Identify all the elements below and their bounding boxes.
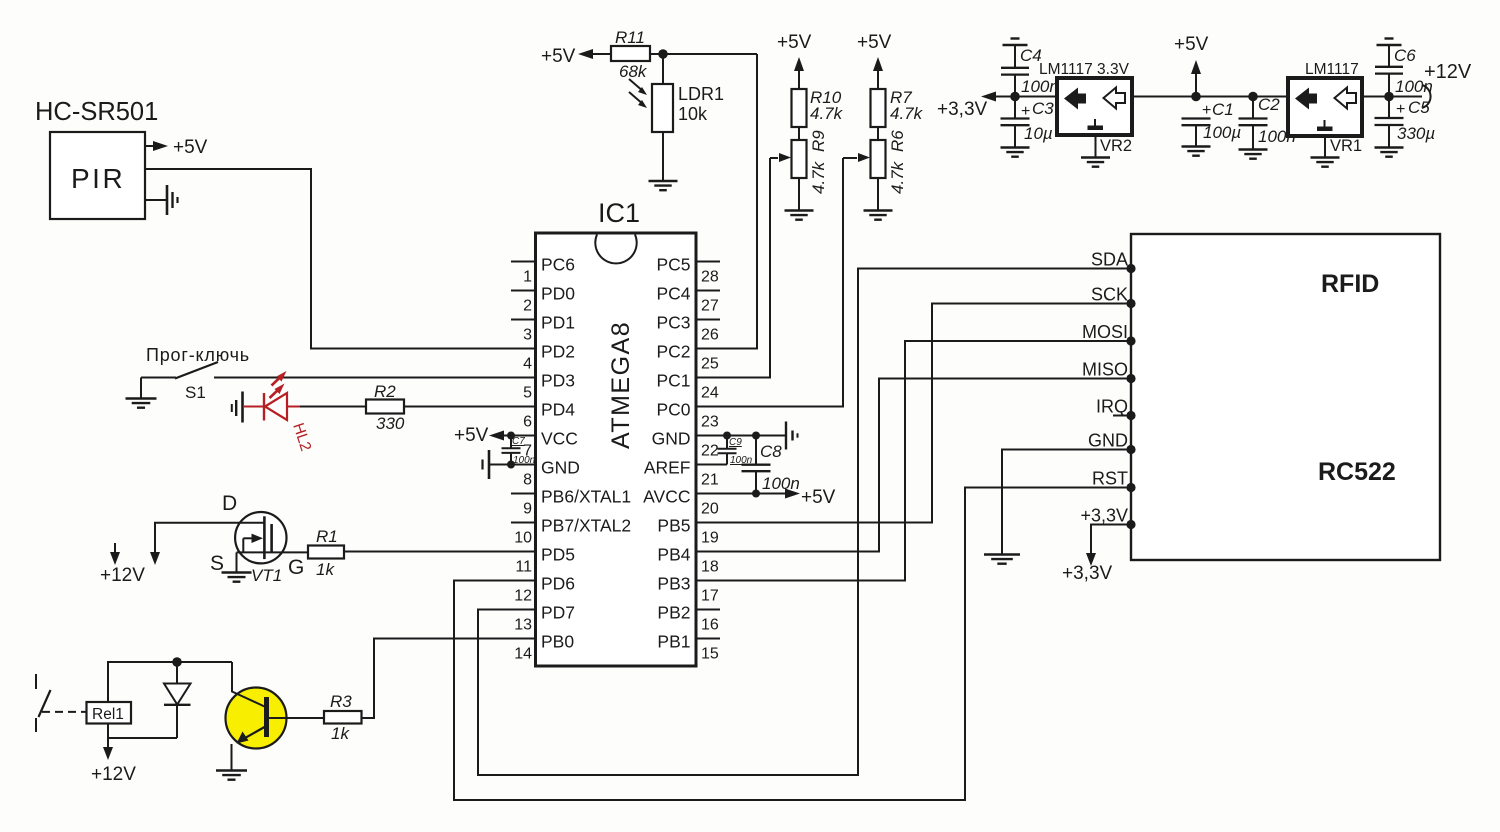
C9 label — [729, 437, 742, 448]
svg-text:C1: C1 — [1212, 100, 1234, 119]
svg-text:C7: C7 — [512, 436, 525, 447]
svg-text:LDR1: LDR1 — [678, 84, 724, 104]
pin 8 number — [523, 472, 532, 489]
wire PB4 to MISO — [696, 379, 1127, 552]
wire R6 to ground — [877, 178, 879, 210]
svg-text:+5V: +5V — [173, 137, 208, 158]
VR2 gnd tab — [1088, 119, 1104, 130]
capacitor C3 — [1001, 97, 1030, 148]
svg-text:19: 19 — [701, 530, 719, 547]
capacitor C2 — [1239, 97, 1268, 150]
IRQ stub — [1113, 415, 1127, 417]
R2 label — [374, 382, 396, 401]
wire VR2 to ground — [1095, 135, 1097, 157]
svg-text:2: 2 — [523, 298, 532, 315]
resistor R3 — [324, 711, 362, 724]
svg-text:24: 24 — [701, 385, 719, 402]
pin 22 name GND — [652, 429, 691, 449]
svg-text:10µ: 10µ — [1024, 124, 1053, 143]
+3,3V label — [937, 99, 988, 120]
R1 label — [316, 527, 338, 546]
svg-text:AVCC: AVCC — [643, 487, 690, 507]
+5V arrow C1 — [1191, 60, 1201, 97]
pin 12 name PD6 — [541, 574, 575, 594]
svg-text:22: 22 — [701, 443, 719, 460]
capacitor C5 — [1375, 97, 1404, 148]
capacitor C9 — [718, 436, 737, 465]
op IC1 body — [536, 233, 697, 666]
wire source to ground — [236, 552, 238, 572]
pin 14 name PB0 — [541, 632, 574, 652]
10k label — [678, 104, 708, 124]
svg-text:PB3: PB3 — [657, 574, 690, 594]
pin 18 number — [701, 559, 719, 576]
R9 wiper arrow — [770, 153, 791, 162]
C1 plus sign — [1202, 102, 1211, 119]
RFID pin MISO label — [1082, 360, 1128, 380]
VR1 solid arrow — [1295, 88, 1317, 110]
LM1117 3.3V label — [1039, 61, 1130, 78]
+5V arrow R10 — [794, 57, 804, 89]
svg-text:PC6: PC6 — [541, 255, 575, 275]
capacitor C7 — [502, 436, 521, 465]
ground above C6 — [1377, 39, 1402, 46]
svg-text:ATMEGA8: ATMEGA8 — [607, 321, 635, 449]
ground above C4 — [1003, 39, 1028, 46]
pin 7 name VCC — [541, 429, 578, 449]
wire pin22 GND net — [696, 435, 785, 437]
trimmer R6 — [871, 140, 886, 178]
VR1 gnd tab — [1317, 120, 1333, 131]
pin 26 stub — [696, 319, 720, 321]
svg-text:R1: R1 — [316, 527, 338, 546]
HC-SR501 label — [35, 98, 158, 126]
pin 20 number — [701, 501, 719, 518]
capacitor C8 — [742, 436, 771, 494]
wire PD7 to SDA — [478, 269, 1127, 776]
VR2 solid arrow — [1064, 88, 1086, 110]
pin 10 name PB7/XTAL2 — [541, 516, 631, 536]
C3 label — [1032, 99, 1054, 118]
RFID pin GND label — [1088, 431, 1128, 451]
svg-text:VR1: VR1 — [1330, 137, 1362, 155]
+12V input connector — [1422, 85, 1431, 108]
node C6/C5 junction — [1384, 92, 1394, 102]
node C4/C3 junction — [1010, 92, 1020, 102]
svg-text:+3,3V: +3,3V — [1080, 506, 1128, 526]
ground RFID — [984, 555, 1020, 564]
RFID pin IRQ label — [1096, 397, 1128, 417]
svg-text:23: 23 — [701, 414, 719, 431]
pin 16 name PB2 — [657, 603, 690, 623]
ground C3 — [1001, 148, 1030, 157]
pin 25 stub — [696, 348, 720, 350]
pin 28 name PC5 — [656, 255, 690, 275]
pin 16 number — [701, 617, 719, 634]
svg-text:PC4: PC4 — [656, 284, 690, 304]
wire pin8 to ground — [490, 464, 511, 466]
svg-text:+3,3V: +3,3V — [1062, 563, 1113, 584]
wire R10-R9 — [798, 127, 800, 140]
svg-text:PC5: PC5 — [656, 255, 690, 275]
+12V arrow standalone — [110, 543, 120, 565]
svg-text:11: 11 — [515, 559, 532, 576]
svg-text:13: 13 — [514, 617, 532, 634]
pin 14 number — [514, 646, 532, 663]
68k label — [619, 62, 648, 81]
RFID pin GND dot — [1126, 445, 1135, 454]
R9 label rotated — [809, 130, 828, 152]
RFID pin SCK label — [1091, 285, 1128, 305]
pin 12 number — [514, 588, 532, 605]
svg-text:PC0: PC0 — [656, 400, 690, 420]
pin 25 name PC2 — [656, 342, 690, 362]
svg-text:PB6/XTAL1: PB6/XTAL1 — [541, 487, 631, 507]
svg-text:IRQ: IRQ — [1096, 397, 1128, 417]
pin 4 name PD2 — [541, 342, 575, 362]
svg-text:S1: S1 — [185, 383, 206, 402]
node VCC junction — [507, 432, 515, 440]
pin 23 name PC0 — [656, 400, 690, 420]
relay contact — [36, 674, 51, 732]
pin 18 name PB4 — [657, 545, 690, 565]
svg-text:C3: C3 — [1032, 99, 1054, 118]
svg-text:3: 3 — [523, 327, 532, 344]
svg-text:PD4: PD4 — [541, 400, 575, 420]
transistor Q1 body — [226, 688, 287, 749]
svg-text:4.7k: 4.7k — [888, 160, 907, 194]
pin 11 name PD5 — [541, 545, 575, 565]
pin 6 name PD4 — [541, 400, 575, 420]
D label — [222, 492, 237, 515]
RFID pin RST label — [1092, 469, 1128, 489]
RFID pin MOSI label — [1082, 322, 1128, 342]
svg-text:VT1: VT1 — [251, 566, 282, 585]
PIR text — [71, 163, 125, 194]
svg-text:MOSI: MOSI — [1082, 322, 1128, 342]
HL2 flash arrows — [270, 371, 287, 398]
svg-text:+5V: +5V — [777, 32, 812, 53]
svg-text:PD0: PD0 — [541, 284, 575, 304]
R3 label — [330, 692, 352, 711]
regulator VR2 box — [1057, 78, 1132, 135]
wire R2 to PD4 — [404, 406, 535, 408]
S1 label — [185, 383, 206, 402]
RFID pin MOSI dot — [1126, 336, 1135, 345]
ground VT1 — [222, 573, 252, 582]
pin 2 stub — [511, 290, 536, 292]
svg-text:10: 10 — [514, 530, 532, 547]
svg-text:+5V: +5V — [454, 425, 489, 446]
R6 label rotated — [888, 130, 907, 152]
svg-text:PD7: PD7 — [541, 603, 575, 623]
resistor R11 — [611, 46, 650, 61]
pin 18 stub — [696, 551, 720, 553]
svg-text:PB4: PB4 — [657, 545, 690, 565]
svg-text:18: 18 — [701, 559, 719, 576]
svg-text:AREF: AREF — [644, 458, 691, 478]
pin 26 number — [701, 327, 719, 344]
wire RFID +3,3V — [1086, 525, 1127, 567]
relay Rel1 coil box — [87, 702, 132, 724]
RFID pin +3,3V dot — [1126, 520, 1135, 529]
pin 17 stub — [696, 580, 720, 582]
svg-text:1k: 1k — [316, 560, 335, 579]
pin 16 stub — [696, 609, 720, 611]
capacitor C4 — [1001, 46, 1029, 97]
wire PB3 to MOSI — [696, 341, 1127, 581]
pin 3 stub — [511, 319, 536, 321]
node C1 junction — [1191, 92, 1201, 102]
ground HL2 (rotated left) — [232, 392, 243, 423]
pin 13 name PD7 — [541, 603, 575, 623]
pin 20 name AVCC — [643, 487, 690, 507]
svg-text:PD1: PD1 — [541, 313, 575, 333]
+3,3V label below arrow — [1062, 563, 1113, 584]
wire R9 to ground — [798, 178, 800, 210]
svg-text:+3,3V: +3,3V — [937, 99, 988, 120]
svg-text:28: 28 — [701, 269, 719, 286]
pin 24 name PC1 — [656, 371, 690, 391]
pin 4 number — [523, 356, 532, 373]
node GND pin8 junction — [507, 461, 515, 469]
C1 label — [1212, 100, 1234, 119]
wire junction to LDR — [662, 54, 664, 84]
pin 11 number — [515, 559, 532, 576]
wire LED to R2 — [300, 406, 366, 408]
wire RFID GND — [1002, 450, 1127, 555]
+12V label VT1 — [100, 565, 145, 586]
Q1 base bar — [264, 697, 269, 737]
wire PIR out to PD2 — [145, 169, 535, 349]
svg-text:+12V: +12V — [1424, 61, 1472, 83]
C8 value 100n — [762, 474, 800, 493]
svg-text:9: 9 — [523, 501, 532, 518]
LM1117 label — [1305, 61, 1359, 78]
pin 23 number — [701, 414, 719, 431]
ground PIR (rotated right) — [145, 185, 178, 215]
pin 19 name PB5 — [657, 516, 690, 536]
RFID pin IRQ dot — [1126, 411, 1135, 420]
svg-text:PC2: PC2 — [656, 342, 690, 362]
+5V label top — [541, 46, 576, 67]
svg-text:5: 5 — [523, 385, 532, 402]
ground VR2 — [1081, 158, 1110, 167]
+5V label VCC — [454, 425, 489, 446]
diode VD — [164, 662, 191, 738]
pin 5 name PD3 — [541, 371, 575, 391]
wire LDR net to PC2 — [696, 54, 757, 349]
svg-text:PB1: PB1 — [657, 632, 690, 652]
pin 9 number — [523, 501, 532, 518]
svg-text:VCC: VCC — [541, 429, 578, 449]
svg-text:PD5: PD5 — [541, 545, 575, 565]
Rel1 label — [92, 706, 124, 723]
svg-text:68k: 68k — [619, 62, 648, 81]
wire LDR to ground — [662, 132, 664, 181]
dashed link — [42, 711, 86, 713]
wire AREF stub — [696, 464, 727, 466]
svg-text:SCK: SCK — [1091, 285, 1128, 305]
ATMEGA8 label rotated — [607, 321, 635, 449]
resistor R10 — [792, 89, 807, 127]
node C8 junction — [752, 432, 760, 440]
pin 5 number — [523, 385, 532, 402]
ground pin8 (rotated left) — [483, 450, 490, 479]
svg-text:+5V: +5V — [541, 46, 576, 67]
pin 22 number — [701, 443, 719, 460]
ground pin22 (rotated right) — [786, 422, 798, 450]
node AVCC junction — [752, 490, 760, 498]
op RC522 module box — [1131, 234, 1440, 560]
pin 10 stub — [511, 522, 536, 524]
photoresistor LDR1 — [652, 84, 673, 132]
svg-text:PB5: PB5 — [657, 516, 690, 536]
wire PB5 to SCK — [696, 304, 1127, 523]
C5 value 330u — [1397, 124, 1435, 143]
pin 26 name PC3 — [656, 313, 690, 333]
svg-text:R3: R3 — [330, 692, 352, 711]
pin 21 number — [701, 472, 719, 489]
svg-text:21: 21 — [701, 472, 719, 489]
pin 12 stub — [511, 580, 536, 582]
R2 value 330 — [376, 414, 405, 433]
pin 23 stub — [696, 406, 720, 408]
+5V arrow AVCC — [785, 489, 800, 499]
+5V label R10 — [777, 32, 812, 53]
svg-text:+5V: +5V — [1174, 34, 1209, 55]
pin 19 number — [701, 530, 719, 547]
pin 7 stub — [511, 435, 536, 437]
svg-text:4: 4 — [523, 356, 532, 373]
RFID pin RST dot — [1126, 483, 1135, 492]
svg-text:Прог-ключь: Прог-ключь — [146, 345, 250, 365]
C8 label — [760, 442, 782, 461]
G label — [288, 556, 304, 579]
pin 27 stub — [696, 290, 720, 292]
trimmer R9 — [792, 140, 807, 178]
pin 28 number — [701, 269, 719, 286]
resistor R2 — [366, 400, 404, 414]
svg-text:4.7k: 4.7k — [809, 160, 828, 194]
svg-text:C5: C5 — [1408, 98, 1430, 117]
wire R1 to PD5 — [344, 551, 535, 553]
pin 15 number — [701, 646, 719, 663]
svg-text:15: 15 — [701, 646, 719, 663]
svg-text:D: D — [222, 492, 237, 515]
C7 label — [512, 436, 525, 447]
svg-text:R6: R6 — [888, 130, 907, 152]
svg-text:GND: GND — [541, 458, 580, 478]
wire VR1 to ground — [1324, 136, 1326, 157]
Q1 emitter — [237, 727, 265, 744]
C4 value 100n — [1021, 77, 1059, 96]
svg-text:G: G — [288, 556, 304, 579]
svg-text:6: 6 — [523, 414, 532, 431]
R1 value 1k — [316, 560, 335, 579]
+12V arrow relay — [103, 738, 113, 760]
RFID pin SDA label — [1091, 250, 1128, 270]
svg-text:C6: C6 — [1394, 46, 1416, 65]
VR1 outline arrow — [1335, 88, 1357, 109]
switch S1 — [141, 362, 535, 379]
svg-text:IC1: IC1 — [598, 198, 640, 228]
pin 7 number — [523, 443, 532, 460]
R3 value 1k — [331, 724, 350, 743]
pin 17 number — [701, 588, 719, 605]
C2 value 100n — [1258, 127, 1296, 146]
pin 25 number — [701, 356, 719, 373]
wire coil bottom — [108, 724, 177, 739]
RFID pin +3,3V label — [1080, 506, 1128, 526]
svg-text:+5V: +5V — [857, 32, 892, 53]
node coil/diode junction — [172, 657, 182, 667]
svg-text:PD6: PD6 — [541, 574, 575, 594]
Q1 collector — [232, 662, 265, 707]
C5 plus sign — [1396, 101, 1405, 118]
svg-text:R9: R9 — [809, 130, 828, 152]
PIR module box — [50, 132, 145, 219]
svg-text:HC-SR501: HC-SR501 — [35, 98, 158, 126]
LDR1 label — [678, 84, 724, 104]
svg-text:330µ: 330µ — [1397, 124, 1435, 143]
VT1 source arrow — [243, 534, 263, 553]
+3,3V output arrow — [981, 92, 1057, 102]
+5V arrow VCC — [489, 431, 535, 441]
VR1 label — [1330, 137, 1362, 155]
R10 label — [810, 88, 842, 107]
ground C1 — [1182, 147, 1211, 156]
pin 1 name PC6 — [541, 255, 575, 275]
wire R9 wiper to PC1 — [696, 158, 770, 378]
svg-text:+12V: +12V — [91, 764, 136, 785]
svg-text:330: 330 — [376, 414, 405, 433]
svg-text:C2: C2 — [1258, 95, 1280, 114]
wire source-gate row — [237, 551, 309, 553]
svg-text:GND: GND — [652, 429, 691, 449]
svg-text:VR2: VR2 — [1100, 137, 1132, 155]
pin 13 number — [514, 617, 532, 634]
RFID pin SCK dot — [1126, 299, 1135, 308]
pin 14 stub — [511, 638, 536, 640]
svg-text:R11: R11 — [615, 28, 645, 47]
svg-text:+: + — [1021, 103, 1030, 120]
C6 value 100n — [1395, 77, 1433, 96]
pin 20 stub — [696, 493, 720, 495]
svg-text:R2: R2 — [374, 382, 396, 401]
ground C5 — [1375, 148, 1404, 157]
C4 label — [1020, 46, 1042, 65]
wire ground to LED — [243, 406, 264, 408]
wire R6 wiper to PC0 — [696, 158, 843, 407]
svg-text:PD2: PD2 — [541, 342, 575, 362]
led HL2 — [264, 393, 302, 421]
ground R6 — [864, 211, 893, 220]
svg-text:PB7/XTAL2: PB7/XTAL2 — [541, 516, 631, 536]
pin 6 number — [523, 414, 532, 431]
+5V arrow left — [578, 49, 611, 59]
wire R3 to PB0 — [362, 639, 536, 719]
svg-text:8: 8 — [523, 472, 532, 489]
svg-text:17: 17 — [701, 588, 719, 605]
R9 value rotated — [809, 160, 828, 194]
VR2 label — [1100, 137, 1132, 155]
ground VR1 — [1311, 158, 1340, 167]
svg-text:Rel1: Rel1 — [92, 706, 124, 723]
HL2 label rotated — [289, 421, 314, 453]
ground LDR1 — [649, 181, 678, 190]
C2 label — [1258, 95, 1280, 114]
